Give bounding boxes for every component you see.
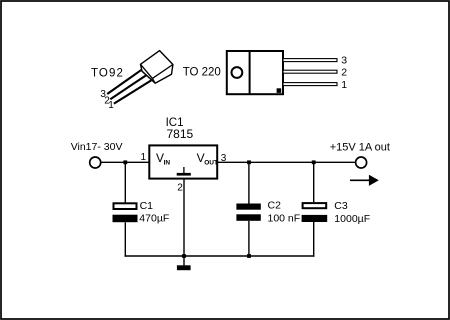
svg-text:470µF: 470µF (139, 212, 169, 224)
input terminal Vin (90, 157, 101, 168)
svg-text:2: 2 (177, 183, 183, 194)
TO220 lead 2 (283, 70, 337, 73)
svg-text:TO92: TO92 (91, 68, 124, 80)
ground (177, 256, 191, 270)
output terminal (356, 157, 367, 168)
wire C1 bottom (124, 222, 126, 257)
svg-text:100 nF: 100 nF (268, 212, 301, 224)
node input junction (123, 160, 127, 164)
svg-text:1: 1 (140, 152, 146, 163)
svg-text:2: 2 (341, 67, 347, 79)
capacitor C2 (236, 204, 260, 221)
label VIN (156, 151, 170, 167)
capacitor C3 (302, 203, 328, 222)
svg-text:OUT: OUT (204, 160, 218, 167)
node C2 top junction (247, 160, 251, 164)
output direction arrow (350, 175, 379, 186)
svg-text:1: 1 (108, 100, 114, 111)
svg-text:1000µF: 1000µF (334, 213, 370, 225)
label VOUT (197, 151, 218, 167)
wire C2 top (248, 162, 250, 203)
wire C1 top (124, 162, 126, 203)
IC internal ground symbol (177, 167, 191, 176)
wire C2 bottom (248, 221, 250, 256)
svg-text:C1: C1 (140, 200, 154, 212)
transistor package TO92 (141, 51, 173, 84)
svg-text:+15V 1A out: +15V 1A out (330, 142, 390, 154)
wire IC pin 2 down (183, 179, 185, 256)
svg-text:C3: C3 (334, 200, 348, 212)
wire C3 bottom (313, 222, 315, 257)
svg-text:IN: IN (164, 160, 171, 167)
node rail junction at pin2 (182, 254, 186, 258)
svg-text:TO 220: TO 220 (183, 67, 221, 79)
regulator package TO220 (227, 51, 283, 94)
svg-text:3: 3 (341, 55, 347, 67)
capacitor C1 (113, 203, 138, 222)
svg-text:1: 1 (341, 79, 347, 91)
node C3 top junction (312, 160, 316, 164)
wire C3 top (313, 162, 315, 202)
wire ground rail (125, 255, 315, 257)
regulator IC1 7815 body (149, 145, 217, 178)
TO220 lead 3 (283, 59, 337, 62)
svg-text:Vin17- 30V: Vin17- 30V (71, 141, 123, 153)
wire IC pin 3 to output (217, 161, 355, 163)
svg-text:C2: C2 (268, 200, 282, 212)
TO92 lead 1 (114, 80, 151, 103)
node rail junction at C2 (247, 254, 251, 258)
wire input to IC pin 1 (102, 161, 151, 163)
svg-text:7815: 7815 (167, 127, 194, 141)
TO220 lead 1 (283, 83, 337, 86)
TO92 lead 3 (107, 70, 141, 94)
TO92 lead 2 (110, 75, 146, 99)
